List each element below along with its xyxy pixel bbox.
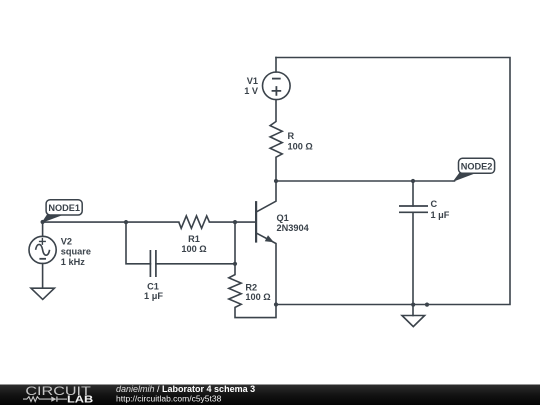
- transistor Q1: [256, 181, 276, 305]
- svg-text:http://circuitlab.com/c5y5t38: http://circuitlab.com/c5y5t38: [116, 394, 222, 404]
- footer bar: [0, 385, 540, 405]
- wire collector node to NODE2: [276, 180, 455, 182]
- svg-text:LAB: LAB: [67, 394, 94, 405]
- svg-text:R: R: [288, 131, 295, 141]
- svg-text:1 μF: 1 μF: [431, 210, 450, 220]
- ground left: [31, 288, 54, 299]
- wire V1 top stem: [275, 58, 277, 73]
- resistor R: [270, 100, 282, 181]
- svg-text:100 Ω: 100 Ω: [288, 141, 313, 151]
- wire cap C bottom stem: [412, 212, 414, 304]
- svg-text:NODE1: NODE1: [48, 203, 80, 213]
- CircuitLab logo squiggle and diode: [23, 397, 67, 402]
- junction ground net: [425, 303, 429, 307]
- svg-text:V1: V1: [247, 76, 258, 86]
- junction base line / C1 branch: [124, 220, 128, 224]
- junction emitter node: [274, 302, 278, 306]
- junction collector node: [274, 179, 278, 183]
- svg-text:Q1: Q1: [277, 213, 289, 223]
- junction cap C top: [411, 179, 415, 183]
- ground right: [402, 316, 425, 327]
- wire V2 top stem: [42, 222, 44, 236]
- resistor R2 and bottom loop to emitter: [229, 264, 276, 318]
- junction C1 right / R2 top: [233, 262, 237, 266]
- svg-text:100 Ω: 100 Ω: [181, 244, 206, 254]
- CircuitLab logo diode symbol: [51, 397, 56, 402]
- svg-text:NODE2: NODE2: [461, 161, 493, 171]
- node NODE1 flag: [43, 200, 83, 222]
- svg-text:square: square: [61, 247, 91, 257]
- node NODE2 flag: [454, 158, 495, 181]
- svg-text:1 V: 1 V: [244, 86, 259, 96]
- junction cap C bottom / ground: [411, 303, 415, 307]
- wire C1 branch right: [156, 263, 235, 265]
- svg-text:V2: V2: [61, 237, 72, 247]
- svg-text:R2: R2: [245, 282, 257, 292]
- svg-text:C1: C1: [147, 281, 159, 291]
- wire ground right stub: [412, 305, 414, 316]
- wire cap C top stem: [412, 181, 414, 206]
- junction R1 right / base node: [233, 220, 237, 224]
- wire base line right: [209, 221, 256, 223]
- svg-text:C: C: [431, 199, 438, 209]
- resistor R1: [179, 216, 210, 228]
- svg-text:100 Ω: 100 Ω: [245, 292, 270, 302]
- svg-text:1 μF: 1 μF: [144, 291, 163, 301]
- junction at NODE1 / V2 top: [41, 220, 45, 224]
- capacitor C1: [150, 250, 156, 277]
- svg-text:1 kHz: 1 kHz: [61, 257, 85, 267]
- voltage source V2: [29, 236, 56, 263]
- voltage source V1: [263, 72, 291, 100]
- wire top/right/bottom loop: [276, 58, 510, 305]
- wire base line left: [43, 221, 179, 223]
- wire C1 branch left: [126, 222, 150, 264]
- wire link R1 to C1: [234, 222, 236, 264]
- wire V2 bottom stem: [42, 264, 44, 289]
- svg-text:R1: R1: [188, 234, 200, 244]
- transistor Q1 emitter arrow: [265, 235, 274, 242]
- svg-text:2N3904: 2N3904: [277, 223, 310, 233]
- svg-text:danielmih / Laborator 4 schema: danielmih / Laborator 4 schema 3: [116, 384, 255, 394]
- capacitor C: [399, 206, 428, 212]
